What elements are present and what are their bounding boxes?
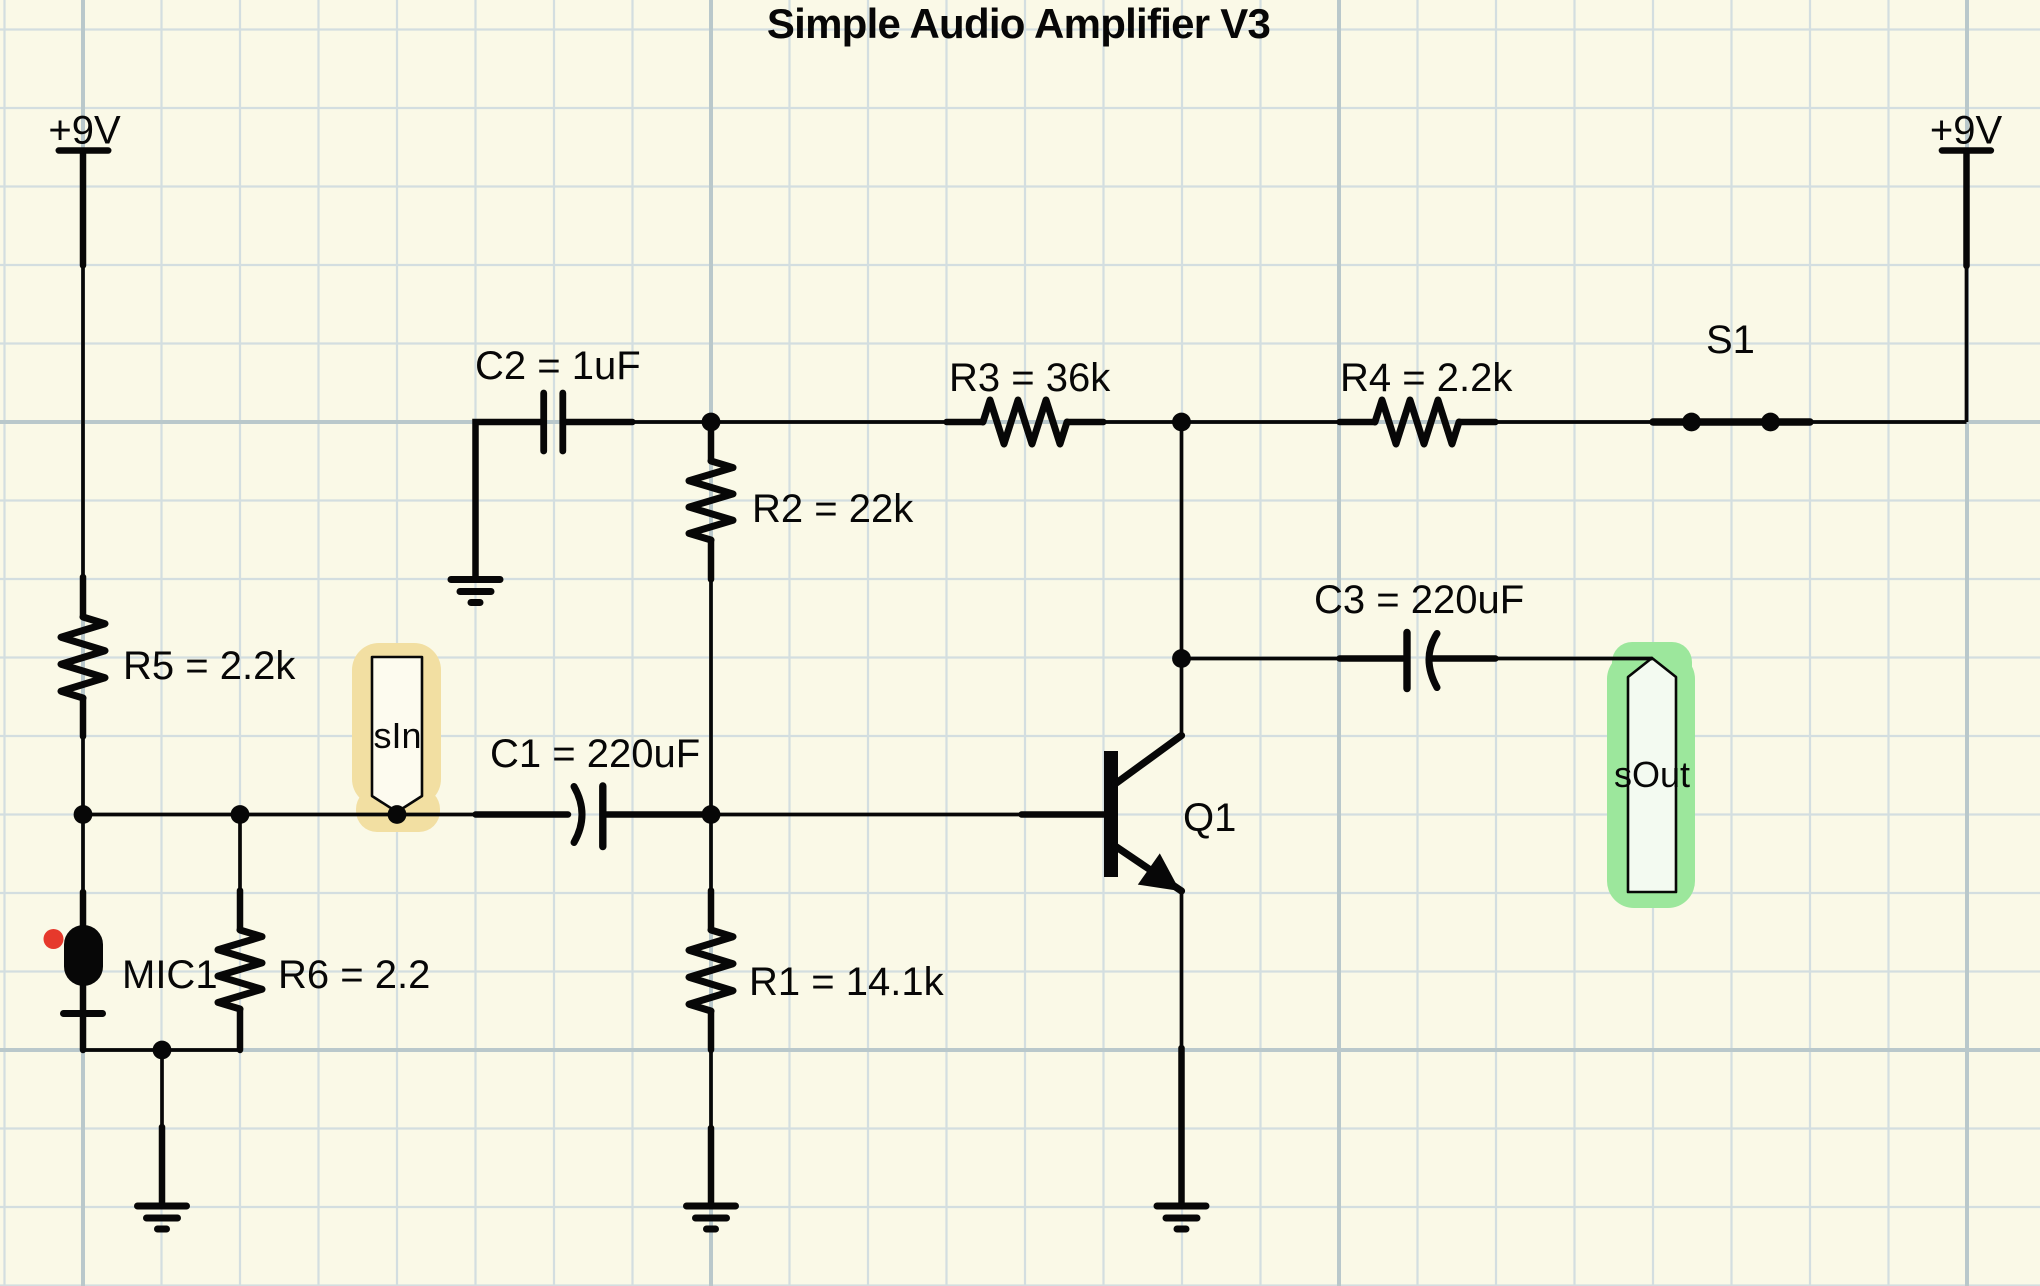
- svg-text:C1 = 220uF: C1 = 220uF: [490, 732, 700, 776]
- svg-text:R3 = 36k: R3 = 36k: [949, 356, 1111, 400]
- svg-text:C3 = 220uF: C3 = 220uF: [1314, 578, 1524, 622]
- svg-text:Simple Audio Amplifier V3: Simple Audio Amplifier V3: [767, 0, 1270, 47]
- svg-text:sOut: sOut: [1614, 754, 1690, 795]
- svg-text:R6 = 2.2: R6 = 2.2: [278, 953, 430, 997]
- svg-text:R1 = 14.1k: R1 = 14.1k: [749, 960, 945, 1004]
- svg-text:R2 = 22k: R2 = 22k: [752, 487, 914, 531]
- svg-text:R5 = 2.2k: R5 = 2.2k: [123, 644, 296, 688]
- svg-text:C2 = 1uF: C2 = 1uF: [475, 344, 641, 388]
- svg-text:Q1: Q1: [1183, 796, 1236, 840]
- svg-text:MIC1: MIC1: [122, 953, 218, 997]
- svg-text:S1: S1: [1706, 318, 1755, 362]
- svg-text:R4 = 2.2k: R4 = 2.2k: [1340, 356, 1513, 400]
- svg-text:+9V: +9V: [1930, 109, 2003, 153]
- svg-text:+9V: +9V: [48, 109, 121, 153]
- svg-text:sIn: sIn: [373, 715, 421, 756]
